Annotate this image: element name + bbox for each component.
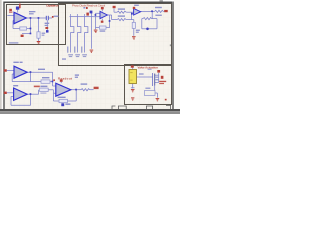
svg-text:Capacitance: Capacitance — [46, 4, 59, 8]
svg-text:Photo Diode Read-out Circuit: Photo Diode Read-out Circuit — [72, 3, 105, 7]
